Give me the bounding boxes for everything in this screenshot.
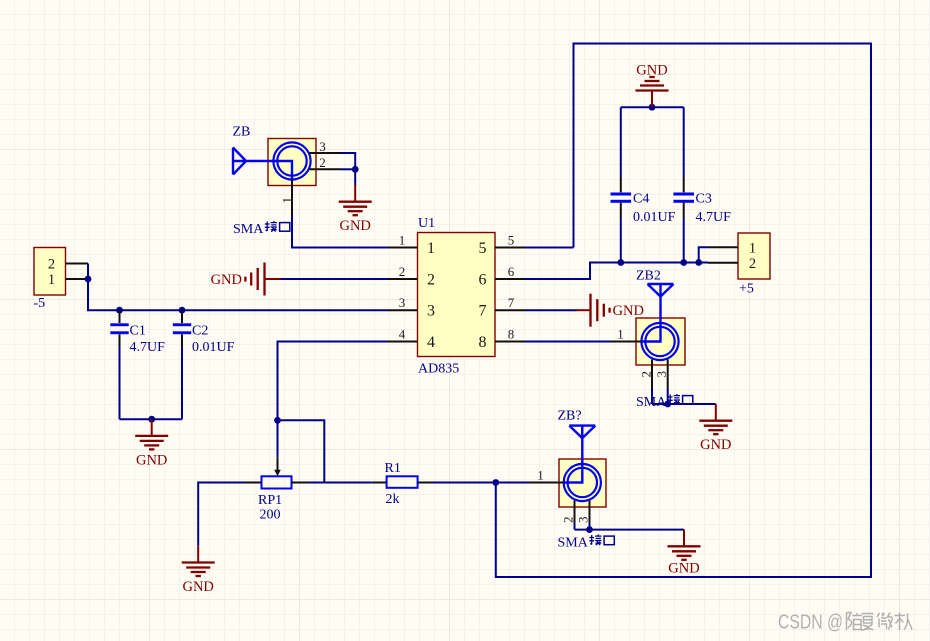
pin 3 of ZB? — [589, 501, 591, 524]
junction GND tap — [148, 416, 155, 423]
svg-text:8: 8 — [479, 334, 487, 351]
svg-text:U1: U1 — [418, 216, 435, 231]
pin 1 of ZB2 — [611, 341, 642, 343]
ground GND (C1 C2) — [135, 419, 168, 449]
svg-text:2: 2 — [48, 257, 55, 273]
pin 1 of P1 — [66, 278, 89, 280]
wire C4-C3 top — [621, 106, 684, 108]
junction C3 bottom — [680, 259, 687, 266]
ground GND (top, inverted) — [636, 77, 669, 107]
wire big loop (top right bottom) — [496, 44, 871, 578]
wire ZB pin1 to U1 pin1 — [292, 215, 388, 248]
svg-text:R1: R1 — [385, 461, 401, 476]
wire RP1 tap to R1 input — [278, 420, 325, 482]
SMA connector ZB — [233, 125, 317, 186]
pin 3 of ZB2 — [667, 360, 669, 390]
ground GND (RP1) — [182, 546, 215, 576]
svg-text:5: 5 — [479, 240, 487, 257]
svg-text:7: 7 — [508, 295, 515, 310]
pin 1 of ZB — [291, 180, 293, 215]
pin 5 of U1 — [479, 233, 526, 258]
svg-text:2: 2 — [639, 371, 654, 378]
svg-text:GND: GND — [182, 579, 213, 595]
svg-text:4.7UF: 4.7UF — [130, 340, 166, 355]
svg-text:1: 1 — [280, 197, 295, 204]
svg-text:RP1: RP1 — [258, 493, 282, 508]
svg-text:3: 3 — [427, 303, 435, 320]
svg-text:ZB?: ZB? — [558, 408, 582, 423]
junction ZB2 pin3 — [664, 401, 671, 408]
svg-text:C4: C4 — [633, 191, 649, 206]
wire U1 pin7 to GND port — [525, 309, 577, 311]
svg-text:2: 2 — [561, 517, 576, 524]
pin 6 of U1 — [479, 264, 526, 289]
svg-text:GND: GND — [636, 63, 667, 79]
junction RP1 tap — [274, 417, 281, 424]
glyph 夏 — [861, 614, 874, 631]
svg-text:GND: GND — [211, 272, 242, 288]
capacitor C2 — [173, 310, 235, 355]
pin 3 of U1 — [388, 295, 436, 320]
pin 2 of P1 — [66, 263, 89, 265]
svg-text:8: 8 — [508, 327, 515, 342]
svg-text:4: 4 — [399, 327, 406, 342]
pin 1 of U1 — [388, 233, 436, 258]
junction R1 output — [492, 479, 499, 486]
potentiometer RP1 — [244, 457, 308, 522]
wire U1 pin5 to top loop — [525, 247, 574, 249]
svg-text:3: 3 — [399, 295, 406, 310]
pin 2 of P2 — [708, 262, 738, 264]
glyph 秋 — [895, 613, 913, 631]
junction GND top tap — [649, 104, 656, 111]
svg-text:ZB: ZB — [233, 125, 251, 140]
wire RP1 right to R1 — [308, 482, 372, 484]
glyph 陌 — [847, 613, 863, 631]
svg-text:GND: GND — [613, 303, 644, 319]
svg-text:+5: +5 — [739, 282, 754, 297]
svg-text:6: 6 — [508, 264, 515, 279]
watermark CSDN @陌夏微秋 — [778, 612, 912, 634]
svg-text:GND: GND — [700, 437, 731, 453]
svg-text:4: 4 — [427, 334, 435, 351]
connector P1 "-5" — [34, 248, 66, 312]
svg-text:-5: -5 — [34, 296, 46, 311]
junction P1 pin1 — [85, 276, 92, 283]
wire R1 to ZB? — [433, 482, 529, 484]
wire U1 pin6 to +5 rail — [525, 263, 708, 280]
svg-text:1: 1 — [617, 327, 624, 342]
svg-text:ZB2: ZB2 — [636, 269, 661, 284]
SMA connector ZB2 — [636, 269, 685, 366]
svg-text:0.01UF: 0.01UF — [192, 340, 235, 355]
pin 4 of U1 — [388, 327, 436, 352]
svg-text:1: 1 — [48, 272, 55, 288]
svg-text:SMA: SMA — [636, 395, 667, 410]
svg-text:GND: GND — [668, 561, 699, 577]
wire ZB pin2 — [341, 168, 355, 170]
svg-text:2k: 2k — [386, 492, 400, 507]
wire C2 down — [181, 346, 183, 419]
antenna symbol ZB? — [569, 426, 595, 439]
wire RP1 left to GND — [198, 483, 244, 546]
svg-text:GND: GND — [339, 218, 370, 234]
svg-text:0.01UF: 0.01UF — [633, 210, 676, 225]
capacitor C4 — [611, 107, 676, 262]
svg-text:3: 3 — [319, 139, 326, 154]
pin 2 of ZB — [309, 168, 341, 170]
pin 2 of ZB? — [574, 501, 576, 524]
ground GND (ZB2) — [699, 404, 732, 434]
svg-text:SMA: SMA — [233, 222, 264, 237]
svg-text:5: 5 — [508, 233, 515, 248]
svg-text:7: 7 — [479, 303, 487, 320]
svg-text:2: 2 — [319, 155, 326, 170]
pin 1 of P2 — [708, 246, 738, 248]
junction C2 top — [179, 307, 186, 314]
label SMA接口 (ZB) — [233, 221, 290, 237]
svg-text:1: 1 — [537, 468, 544, 483]
connector P2 "+5" — [738, 233, 770, 297]
wire C1 down — [119, 346, 121, 419]
svg-text:AD835: AD835 — [418, 362, 459, 377]
power port GND (U1 pin2, left) — [245, 263, 281, 296]
svg-text:SMA: SMA — [558, 536, 589, 551]
glyph 微 — [877, 613, 893, 630]
IC U1 AD835 — [418, 216, 496, 377]
pin 1 of ZB? — [529, 482, 564, 484]
label SMA接口 (ZB?) — [558, 535, 615, 551]
wire ZB? pins to GND — [575, 529, 685, 531]
svg-text:GND: GND — [136, 452, 167, 468]
svg-text:C3: C3 — [696, 191, 712, 206]
junction ZB pin2 — [352, 166, 359, 173]
junction C1 top — [116, 307, 123, 314]
svg-text:1: 1 — [749, 241, 756, 257]
pin 2 of ZB2 — [651, 360, 653, 390]
ground GND (ZB) — [339, 185, 372, 215]
antenna symbol ZB2 — [648, 284, 674, 297]
power port GND (U1 pin7, right) — [576, 294, 610, 327]
pin 7 of U1 — [479, 295, 526, 320]
svg-text:2: 2 — [427, 272, 435, 289]
wire P2 pin1 to rail — [699, 247, 708, 262]
label SMA接口 (ZB2) — [636, 394, 693, 410]
pin 3 of ZB — [309, 152, 341, 154]
ground GND (ZB?) — [668, 530, 701, 560]
svg-text:CSDN @: CSDN @ — [778, 612, 843, 634]
wire U1 pin8 to ZB2 — [525, 341, 611, 343]
junction +5 pin1 — [695, 259, 702, 266]
wire U1 pin2 to GND port — [280, 278, 388, 280]
wire ZB2 pins to GND — [652, 403, 716, 405]
pin 8 of U1 — [479, 327, 526, 352]
svg-text:1: 1 — [399, 233, 406, 248]
capacitor C3 — [673, 107, 731, 262]
capacitor C1 — [110, 310, 165, 355]
svg-text:200: 200 — [260, 507, 281, 522]
svg-text:3: 3 — [654, 371, 669, 378]
junction ZB? pin3 — [586, 526, 593, 533]
svg-text:1: 1 — [427, 240, 435, 257]
SMA connector ZB? — [558, 408, 607, 507]
wire C1-C2 bottom — [120, 418, 183, 420]
svg-text:2: 2 — [399, 264, 406, 279]
svg-text:C2: C2 — [192, 324, 208, 339]
svg-text:6: 6 — [479, 272, 487, 289]
wire -5 rail to U1 pin 3 — [88, 264, 388, 311]
svg-text:3: 3 — [576, 517, 591, 524]
wire ZB pin3 to GND — [341, 153, 355, 185]
antenna symbol ZB — [233, 148, 246, 175]
svg-text:2: 2 — [749, 256, 756, 272]
pin 2 of U1 — [388, 264, 436, 289]
svg-text:4.7UF: 4.7UF — [696, 210, 732, 225]
junction C4 bottom — [617, 259, 624, 266]
resistor R1 — [372, 461, 433, 507]
wire U1 pin4 to RP1 — [278, 342, 388, 458]
svg-text:C1: C1 — [130, 324, 146, 339]
